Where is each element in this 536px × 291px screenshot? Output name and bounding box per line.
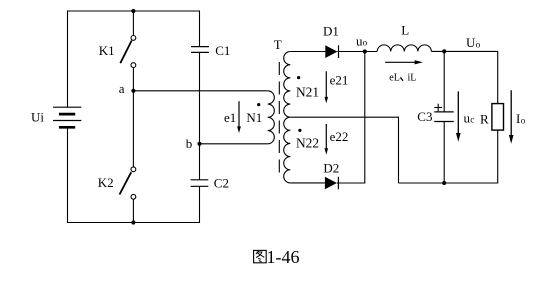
- svg-text:b: b: [186, 136, 193, 151]
- svg-text:e21: e21: [330, 73, 349, 88]
- svg-text:o: o: [521, 115, 526, 125]
- svg-text:D1: D1: [323, 23, 339, 38]
- svg-text:D2: D2: [323, 161, 339, 176]
- svg-text:e22: e22: [330, 129, 349, 144]
- svg-text:1-46: 1-46: [267, 247, 300, 267]
- svg-text:K2: K2: [98, 175, 114, 190]
- svg-text:U: U: [466, 35, 476, 50]
- svg-text:eL: eL: [389, 73, 400, 84]
- svg-text:I: I: [516, 111, 520, 126]
- svg-text:L: L: [401, 23, 409, 38]
- svg-text:a: a: [119, 81, 125, 96]
- svg-text:C1: C1: [215, 43, 230, 58]
- svg-text:C2: C2: [214, 175, 229, 190]
- svg-text:T: T: [274, 37, 282, 52]
- svg-text:N1: N1: [246, 110, 262, 125]
- svg-text:Ui: Ui: [31, 109, 44, 124]
- svg-text:R: R: [480, 112, 489, 127]
- svg-text:K1: K1: [99, 43, 115, 58]
- svg-text:C3: C3: [417, 109, 432, 124]
- svg-text:N21: N21: [296, 84, 319, 99]
- svg-text:o: o: [363, 38, 368, 48]
- svg-text:o: o: [476, 39, 481, 49]
- svg-text:c: c: [470, 115, 474, 125]
- svg-text:e1: e1: [224, 110, 236, 125]
- svg-text:iL: iL: [408, 73, 417, 84]
- svg-text:N22: N22: [296, 135, 319, 150]
